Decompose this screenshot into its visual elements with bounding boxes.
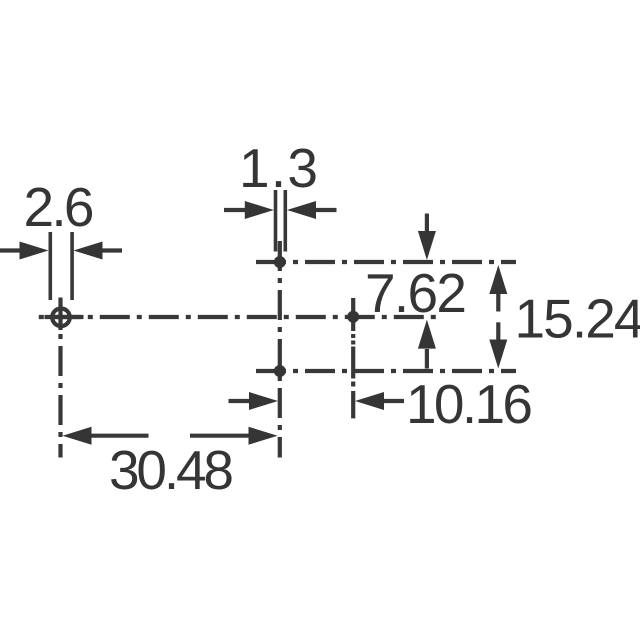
centerline horizontal top row (through hole H2): [256, 260, 516, 264]
centerline vertical through hole H1, solid crosshair part: [58, 298, 62, 331]
dimension 10.16 left arrow tail: [229, 399, 251, 403]
centerline horizontal middle row (through hole H1 and H4): [35, 315, 442, 319]
extension line right of 2.6 dimension: [70, 232, 74, 300]
centerline solid segment through hole H1: [45, 315, 84, 319]
dimension 30.48 left shaft: [91, 434, 149, 438]
arrowhead 15.24 bottom (points down): [489, 340, 507, 369]
dimension 1.3 left arrow tail: [224, 208, 246, 212]
arrowhead 30.48 right (points right): [249, 427, 278, 445]
centerline vertical through hole H4, long dash crossing bottom row: [351, 347, 355, 379]
centerline vertical through hole H4, short dash 3: [351, 382, 355, 387]
dimension 15.24 lower shaft: [496, 322, 500, 339]
svg-text:7.62: 7.62: [365, 262, 467, 324]
arrowhead 2.6 right (points left): [74, 242, 103, 260]
hole H4 solder dot (middle right): [347, 311, 359, 323]
hole H2 solder dot (top middle): [274, 256, 286, 268]
arrowhead 15.24 top (points up): [489, 265, 507, 294]
centerline vertical through hole H4, short dash 2: [351, 341, 355, 345]
arrowhead 30.48 left (points left): [63, 427, 92, 445]
dimension 1.3 right arrow tail: [315, 208, 337, 212]
svg-text:1.3: 1.3: [239, 137, 318, 199]
centerline horizontal bottom row (through hole H3): [256, 369, 516, 373]
arrowhead 10.16 right (points left): [355, 392, 384, 410]
arrowhead 1.3 right (points left): [287, 201, 316, 219]
svg-text:15.24: 15.24: [515, 288, 640, 350]
svg-text:10.16: 10.16: [406, 373, 533, 435]
arrowhead 10.16 left (points right): [249, 392, 278, 410]
svg-text:30.48: 30.48: [109, 439, 234, 501]
hole H3 solder dot (bottom middle): [274, 365, 286, 377]
dimension 30.48 right shaft: [190, 434, 249, 438]
dimension 15.24 upper shaft: [496, 294, 500, 312]
centerline vertical through hole H4, bottom long dash: [351, 391, 355, 418]
extension line right of 1.3 dimension: [283, 190, 287, 252]
extension line left of 1.3 dimension: [274, 190, 278, 252]
hole H1 pad circle with crosshair (2.6 mm): [52, 309, 70, 327]
centerline vertical through holes H2 and H3: [278, 241, 282, 458]
dimension 7.62 top arrow shaft: [425, 214, 429, 233]
dimension 7.62 bottom arrow shaft: [425, 349, 429, 369]
extension line left of 2.6 dimension: [48, 232, 52, 300]
arrowhead 1.3 left (points right): [245, 201, 274, 219]
arrowhead 7.62 top (points down): [418, 231, 436, 260]
arrowhead 2.6 left (points right): [20, 242, 49, 260]
centerline vertical through hole H4, short dash 1: [351, 334, 355, 338]
dimension 2.6 right arrow tail: [101, 248, 122, 252]
centerline vertical through hole H1, dash-dot lower part: [58, 334, 62, 458]
dimension 2.6 left arrow tail: [0, 248, 21, 252]
dimension 10.16 right arrow tail: [384, 399, 404, 403]
svg-text:2.6: 2.6: [24, 176, 95, 238]
centerline vertical through hole H4, upper segment into dot: [351, 298, 355, 331]
arrowhead 7.62 bottom (points up): [418, 320, 436, 349]
